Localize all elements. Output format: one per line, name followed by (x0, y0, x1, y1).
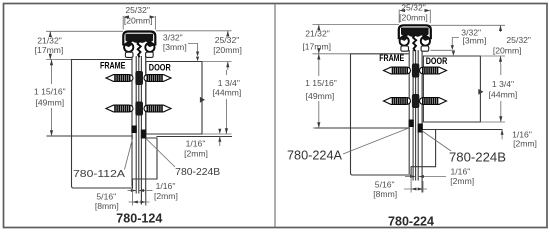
svg-text:780-224: 780-224 (388, 214, 435, 229)
hinge leaf line 1 (131, 57, 133, 187)
dim 1/16 lower right diagram: left arrow (405, 176, 415, 178)
dim 1/16 gap right: down arrow (218, 129, 221, 134)
hinge leaf line 2 right (412, 51, 414, 181)
gear mesh at top screw (135, 71, 143, 85)
dim 25/32 top: left extension line (122, 16, 124, 30)
hinge leaf line 2 (135, 57, 137, 194)
door panel outline (146, 62, 202, 135)
svg-text:[3mm]: [3mm] (462, 36, 486, 46)
frame jamb profile outline (72, 60, 158, 189)
screw S4 door side bottom (144, 105, 171, 112)
dim 1/16 gap rr: up arrow with tail (501, 130, 503, 140)
door edge mid tick arrow (200, 97, 205, 103)
screw S1 frame side top (106, 75, 133, 82)
screw S2 door side top (144, 75, 171, 82)
svg-text:[8mm]: [8mm] (373, 189, 397, 199)
gear mesh at top screw right (412, 64, 419, 78)
panel divider (274, 4, 276, 228)
dim 3/32 right: arrow upper (451, 45, 454, 50)
svg-text:FRAME: FRAME (379, 53, 404, 63)
dim 25/32 top: right arrow (150, 15, 156, 18)
dim 25/32 rr: dim line upper (500, 25, 502, 32)
leader 780-224B (422, 131, 452, 152)
dim 1 15/16: dimension line lower segment (51, 108, 53, 136)
hinge cap (123, 32, 155, 58)
leader 780-224B (147, 139, 176, 167)
screw S7 frame side bottom right (384, 98, 411, 105)
door bottom stop line right segment (157, 136, 232, 138)
dim 25/32 right: dimension line upper (227, 31, 229, 36)
svg-text:[8mm]: [8mm] (95, 201, 119, 211)
svg-text:780-224B: 780-224B (449, 150, 506, 164)
dim 3/32 right: arrow lower at door top (452, 51, 455, 56)
hinge leaf line 3 (138, 57, 140, 194)
svg-text:[17mm]: [17mm] (35, 45, 64, 55)
dim 1/16 gap right: up arrow with tail (219, 137, 221, 147)
dim 1/16 lower right diagram: right arrow with leader (419, 176, 446, 178)
door edge mid tick arrow right (478, 89, 483, 95)
svg-text:780-224A: 780-224A (287, 149, 343, 163)
dim 1 3/4 right: dim line lower (500, 101, 502, 122)
dim 5/16 right: left arrow (411, 188, 416, 191)
dim 25/32 right: bottom arrow (226, 62, 229, 68)
dim 21/32 right diagram: top extension (312, 24, 399, 26)
svg-text:25/32": 25/32" (401, 2, 426, 12)
svg-text:[2mm]: [2mm] (184, 149, 208, 159)
dim 1 3/4: bottom arrow (225, 128, 228, 134)
svg-text:25/32": 25/32" (506, 35, 531, 45)
right channel black end right (418, 124, 423, 133)
left channel black end right (409, 120, 414, 128)
svg-text:[20mm]: [20mm] (124, 16, 153, 26)
dim 1 15/16 right: dim line upper (318, 54, 320, 76)
dim 5/16: step extension line (132, 189, 134, 206)
dim 1/16 lower: right arrow with tail leader (139, 190, 153, 192)
dim 1 15/16 right: dim line lower (318, 101, 320, 128)
svg-text:780-124: 780-124 (116, 211, 163, 226)
door bottom extension line (202, 133, 232, 135)
svg-text:21/32": 21/32" (37, 35, 62, 45)
dim 5/16 right: step extension (410, 177, 412, 193)
dim 21/32 right diagram: frame-top extension (312, 53, 350, 55)
svg-text:1 3/4": 1 3/4" (492, 79, 514, 89)
gear mesh at bottom screw right (412, 94, 419, 108)
dim 21/32 right: bottom arrow (317, 48, 320, 54)
dim 1 15/16: bottom arrow (50, 130, 53, 136)
dim 25/32 rr: top arrow (499, 25, 502, 31)
dim 1 3/4: dimension line lower segment (225, 99, 227, 134)
svg-text:[20mm]: [20mm] (213, 45, 242, 55)
screw S5 frame side top right (384, 67, 411, 74)
dim 1 3/4: dimension line upper segment (225, 70, 227, 75)
dim 1 3/4 right: bottom arrow (499, 116, 502, 122)
dim 21/32: bottom arrow (49, 54, 52, 60)
svg-text:[44mm]: [44mm] (489, 89, 518, 99)
svg-text:21/32": 21/32" (305, 28, 330, 38)
dim 3/32 leader elbow (188, 44, 198, 54)
svg-text:1/16": 1/16" (451, 166, 471, 176)
left channel black end (131, 126, 136, 134)
svg-text:780-224B: 780-224B (175, 167, 220, 178)
dim 25/32 right: extension line from cap (156, 30, 232, 32)
gear mesh at bottom screw (135, 102, 143, 116)
svg-text:[2mm]: [2mm] (154, 191, 178, 201)
dim 25/32 top: right extension line (154, 16, 156, 30)
svg-text:[17mm]: [17mm] (302, 42, 331, 52)
dim 25/32 top right diagram: right arrow (425, 9, 431, 12)
svg-text:[3mm]: [3mm] (163, 42, 187, 52)
svg-text:5/16": 5/16" (96, 191, 116, 201)
svg-text:1 15/16": 1 15/16" (34, 86, 66, 96)
dim 25/32 top right diagram: left extension (398, 10, 400, 24)
svg-text:[2mm]: [2mm] (513, 139, 537, 149)
door top extension right diagram (480, 55, 505, 57)
svg-text:1 3/4": 1 3/4" (218, 78, 240, 88)
hinge leaf line 4 (140, 57, 142, 205)
dim 21/32: dimension line (49, 31, 51, 36)
svg-text:[44mm]: [44mm] (213, 88, 242, 98)
dim 1/16 lower: left arrow with tail (128, 190, 137, 192)
dim 1 15/16 right: bottom arrow (317, 122, 320, 128)
dim 21/32 right: top arrow (317, 25, 320, 31)
dim 5/16: left arrow (133, 201, 138, 204)
dim 5/16: hinge extension line (145, 194, 147, 206)
dim 1 15/16 right: top arrow (317, 54, 320, 60)
leader 780-112A (125, 138, 133, 170)
dim 3/32 arrow upper (196, 52, 199, 57)
svg-text:DOOR: DOOR (426, 56, 448, 66)
door top extension line (202, 61, 232, 63)
svg-text:25/32": 25/32" (215, 35, 240, 45)
dim 25/32 rr: bottom arrow with tail (500, 56, 502, 64)
svg-text:1/16": 1/16" (156, 181, 176, 191)
door bottom stop line right diagram (423, 129, 502, 131)
hinge leaf line 5 right (421, 51, 423, 193)
dim 25/32 right: dimension line lower tail (227, 62, 229, 71)
hinge leaf line 1 right (408, 51, 410, 174)
dim 3/32 arrow lower at door top (196, 57, 199, 62)
dim 21/32: top extension line to cap (46, 30, 123, 32)
dim 25/32 right: top arrow (226, 31, 229, 37)
svg-text:780-112A: 780-112A (73, 169, 125, 180)
screw S3 frame side bottom (106, 105, 133, 112)
svg-text:[20mm]: [20mm] (493, 45, 522, 55)
dim 25/32 top: left arrow (123, 15, 129, 18)
dim 21/32 right diagram: dimension line (318, 25, 320, 29)
svg-text:[49mm]: [49mm] (306, 91, 335, 101)
dim 5/16 right: right arrow (418, 188, 423, 191)
dim 5/16: right arrow (141, 201, 146, 204)
hinge leaf line 3 right (415, 51, 417, 181)
svg-text:FRAME: FRAME (100, 60, 126, 70)
dim 5/16: dimension line (129, 201, 150, 203)
svg-text:[49mm]: [49mm] (35, 97, 64, 107)
leader 780-224A (343, 129, 408, 155)
dim 25/32 top right diagram: right extension (429, 10, 431, 24)
svg-text:25/32": 25/32" (125, 5, 150, 15)
svg-text:1 15/16": 1 15/16" (305, 78, 337, 88)
frame stop line left segment (47, 135, 133, 137)
dim 21/32: top arrow (49, 31, 52, 37)
hinge cap right (399, 25, 431, 51)
hinge leaf line 5 (145, 57, 147, 206)
svg-text:[20mm]: [20mm] (399, 13, 428, 23)
dim 1 15/16: dimension line upper segment (51, 60, 53, 85)
dim 21/32: frame-top extension line (46, 59, 71, 61)
svg-text:[2mm]: [2mm] (450, 176, 474, 186)
dim 5/16 right: hinge extension (422, 181, 424, 193)
svg-text:DOOR: DOOR (149, 63, 171, 73)
door bottom extension right (480, 121, 505, 123)
door panel outline right (423, 56, 480, 122)
stop line left extension right diagram (313, 127, 315, 129)
dim 5/16 right: dim line (404, 188, 427, 190)
svg-text:1/16": 1/16" (186, 139, 206, 149)
frame stop line right diagram (315, 127, 409, 129)
dim 25/32 right diagram right side: extension from cap (431, 24, 506, 26)
dim 3/32 right: leader elbow (452, 38, 459, 48)
dim 25/32 top right diagram: left arrow (399, 9, 405, 12)
dim 1 15/16: top arrow (50, 60, 53, 66)
frame jamb profile outline right (351, 54, 436, 175)
screw S6 door side top right (420, 67, 447, 74)
cap foot line extension right diagram (431, 49, 456, 51)
hinge leaf line 4 right (417, 51, 419, 181)
right channel black end (141, 130, 147, 139)
dim 1 3/4 right: dim line upper (500, 64, 502, 75)
screw S8 door side bottom right (420, 98, 447, 105)
